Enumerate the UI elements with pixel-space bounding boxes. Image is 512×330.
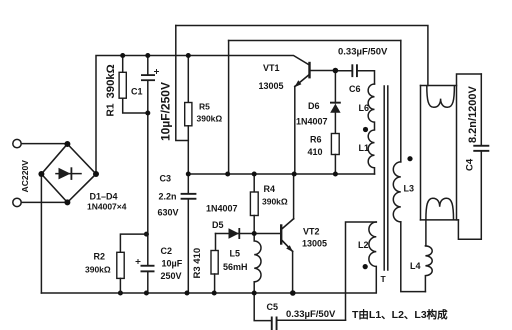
svg-text:0.33µF/50V: 0.33µF/50V [338, 47, 388, 58]
svg-text:T: T [381, 274, 387, 284]
svg-text:AC220V: AC220V [20, 160, 30, 193]
svg-text:L4: L4 [410, 261, 421, 271]
svg-text:C1: C1 [131, 87, 143, 97]
svg-text:L1: L1 [359, 143, 370, 153]
svg-text:C6: C6 [349, 84, 361, 94]
svg-text:8.2n/1200V: 8.2n/1200V [467, 85, 479, 143]
svg-text:C4: C4 [465, 158, 476, 171]
svg-text:13005: 13005 [302, 239, 327, 249]
svg-text:1N4007: 1N4007 [206, 204, 238, 214]
svg-text:VT2: VT2 [303, 227, 320, 237]
svg-text:250V: 250V [161, 271, 182, 281]
svg-text:410: 410 [308, 147, 323, 157]
svg-text:R2: R2 [94, 252, 106, 262]
svg-text:2.2n: 2.2n [159, 192, 177, 202]
svg-text:D1–D4: D1–D4 [90, 192, 118, 202]
svg-text:R5: R5 [199, 102, 210, 112]
svg-text:10µF/250V: 10µF/250V [159, 82, 173, 141]
svg-text:VT1: VT1 [263, 63, 280, 73]
svg-text:390kΩ: 390kΩ [197, 114, 223, 124]
svg-text:R1: R1 [106, 103, 117, 116]
svg-text:56mH: 56mH [223, 262, 248, 272]
svg-text:C2: C2 [161, 246, 173, 256]
svg-text:R3 410: R3 410 [192, 248, 203, 279]
svg-text:390kΩ: 390kΩ [105, 64, 117, 98]
svg-text:R6: R6 [310, 135, 322, 145]
svg-text:390kΩ: 390kΩ [262, 197, 288, 207]
svg-text:630V: 630V [158, 208, 179, 218]
svg-text:0.33µF/50V: 0.33µF/50V [286, 309, 336, 320]
svg-text:T由L1、L2、L3构成: T由L1、L2、L3构成 [352, 308, 448, 321]
svg-text:1N4007×4: 1N4007×4 [87, 202, 127, 212]
svg-text:C5: C5 [267, 302, 279, 312]
svg-text:10µF: 10µF [162, 259, 183, 269]
svg-text:D5: D5 [212, 220, 224, 230]
svg-text:C3: C3 [160, 174, 172, 184]
svg-text:L5: L5 [230, 249, 241, 259]
svg-text:L2: L2 [358, 240, 369, 250]
svg-text:L6: L6 [359, 103, 370, 113]
svg-text:D6: D6 [308, 101, 320, 111]
svg-text:390kΩ: 390kΩ [85, 265, 111, 275]
svg-text:R4: R4 [264, 184, 276, 194]
svg-text:1N4007: 1N4007 [296, 117, 328, 127]
svg-text:13005: 13005 [259, 81, 284, 91]
svg-text:L3: L3 [404, 184, 415, 194]
